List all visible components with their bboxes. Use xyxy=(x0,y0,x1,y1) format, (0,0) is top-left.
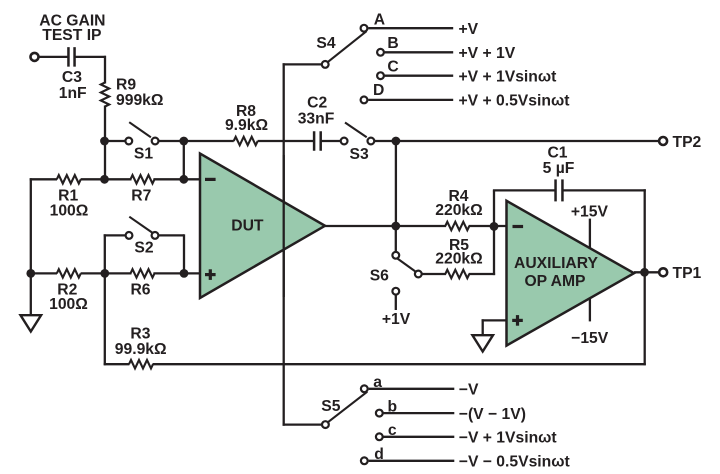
svg-text:b: b xyxy=(388,398,398,415)
op-amp DUT xyxy=(200,154,325,298)
resistor R9 xyxy=(101,83,109,107)
svg-text:c: c xyxy=(388,422,397,439)
wire tap c xyxy=(383,436,454,438)
svg-text:S5: S5 xyxy=(321,398,340,415)
svg-text:S2: S2 xyxy=(134,240,153,257)
net -V + 1Vsinwt xyxy=(459,430,558,447)
junction dot R1-R7 xyxy=(100,175,109,184)
wire tap D xyxy=(368,99,453,101)
svg-text:C1: C1 xyxy=(547,145,567,162)
resistor R5 label xyxy=(435,237,482,268)
wire vertical S1-right to DUT minus row xyxy=(183,140,185,181)
op-amp U1 auxiliary xyxy=(507,201,635,346)
wire S2 left leg xyxy=(104,234,126,274)
switch S5 xyxy=(322,392,367,428)
wire junction to R7 xyxy=(105,178,132,180)
junction dot TP2 row xyxy=(392,137,401,146)
capacitor C3 xyxy=(68,47,74,67)
resistor R9 label xyxy=(116,77,163,109)
junction dot S1 right xyxy=(179,137,188,146)
svg-text:−V: −V xyxy=(459,382,479,399)
junction dot DUT output xyxy=(391,222,400,231)
contact a xyxy=(361,374,382,392)
switch S6 label xyxy=(370,268,389,285)
resistor R4 label xyxy=(435,188,482,219)
net +V xyxy=(459,21,479,38)
net -15V xyxy=(571,330,609,347)
svg-text:+V + 1V: +V + 1V xyxy=(459,45,516,62)
wire aux plus to ground xyxy=(482,319,507,335)
switch S3 xyxy=(341,123,375,145)
svg-text:−V + 1Vsinωt: −V + 1Vsinωt xyxy=(459,430,558,447)
svg-text:B: B xyxy=(387,35,398,52)
contact D xyxy=(361,82,385,103)
net -(V - 1V) xyxy=(459,406,526,423)
svg-text:OP AMP: OP AMP xyxy=(524,273,585,290)
switch S6 xyxy=(392,252,421,277)
resistor R5 xyxy=(445,270,469,278)
svg-text:AUXILIARY: AUXILIARY xyxy=(514,255,598,272)
wire S1 row left xyxy=(105,140,126,142)
capacitor C1 xyxy=(556,179,563,201)
resistor R7 label xyxy=(131,187,151,204)
wire R5 right leg up xyxy=(469,226,495,275)
wire junction down to R3 row xyxy=(104,273,130,365)
op-amp DUT label xyxy=(231,218,264,235)
capacitor C3 label xyxy=(59,69,87,102)
wire S2 right leg xyxy=(158,234,184,274)
junction dot R7-DUT xyxy=(179,175,188,184)
svg-text:+V + 0.5Vsinωt: +V + 0.5Vsinωt xyxy=(459,93,571,110)
op-amp DUT plus sign xyxy=(205,269,216,280)
junction dot R2-R6 xyxy=(100,269,109,278)
resistor R8 xyxy=(234,137,258,145)
net +V + 1Vsinwt xyxy=(459,68,558,85)
svg-text:33nF: 33nF xyxy=(298,110,335,127)
svg-text:TEST IP: TEST IP xyxy=(42,27,101,44)
switch S2 xyxy=(126,217,159,239)
junction dot R2 left xyxy=(26,269,35,278)
svg-text:1nF: 1nF xyxy=(59,85,87,102)
ground left xyxy=(21,315,42,331)
wire S1 junction to R8 xyxy=(184,140,234,142)
wire R1 row left corner xyxy=(30,178,57,274)
capacitor C2 xyxy=(314,131,321,151)
wire S1 row right xyxy=(158,140,184,142)
svg-text:999kΩ: 999kΩ xyxy=(116,92,163,109)
wire R9 to S1 row junction xyxy=(104,106,106,181)
svg-text:S4: S4 xyxy=(316,35,335,52)
svg-text:R6: R6 xyxy=(130,282,150,299)
wire R6 to DUT plus xyxy=(153,272,200,274)
svg-text:−(V − 1V): −(V − 1V) xyxy=(459,406,526,423)
junction dot R6-DUT xyxy=(180,269,189,278)
wire tap A xyxy=(368,27,453,29)
resistor R4 xyxy=(445,222,469,230)
switch S1 xyxy=(125,122,158,144)
svg-text:R3: R3 xyxy=(130,326,150,343)
net -V - 0.5Vsinwt xyxy=(459,454,571,471)
svg-text:+1V: +1V xyxy=(382,311,411,328)
resistor R1 xyxy=(57,175,81,183)
switch S2 label xyxy=(134,240,153,257)
wire C1 left leg xyxy=(493,190,495,227)
svg-text:C: C xyxy=(387,59,398,76)
svg-text:220kΩ: 220kΩ xyxy=(435,251,482,268)
wire vertical TP2-row to output row xyxy=(395,141,397,226)
svg-text:9.9kΩ: 9.9kΩ xyxy=(225,117,268,134)
resistor R2 label xyxy=(49,282,88,313)
wire S6 to R5 xyxy=(422,273,447,275)
svg-text:S6: S6 xyxy=(370,268,389,285)
terminal +1V xyxy=(382,288,411,328)
wire DUT output to R4 xyxy=(325,225,446,227)
wire R3 row to right vertical xyxy=(153,363,646,365)
wire +1V stub xyxy=(395,295,397,310)
svg-text:+15V: +15V xyxy=(571,204,609,221)
svg-text:+V: +V xyxy=(459,21,479,38)
capacitor C1 label xyxy=(543,145,575,178)
wire S5 feed xyxy=(283,423,322,425)
svg-text:TP2: TP2 xyxy=(673,134,702,151)
wire junction to R6 xyxy=(105,272,132,274)
wire R8 to C2 xyxy=(258,140,315,142)
wire input to C3 xyxy=(39,56,69,58)
svg-text:100Ω: 100Ω xyxy=(49,296,88,313)
contact b xyxy=(376,398,397,416)
wire tap d xyxy=(369,460,455,462)
wire R2 row left xyxy=(30,272,57,274)
contact B xyxy=(377,35,399,56)
op-amp U1 plus sign xyxy=(512,315,523,326)
terminal TP2 label xyxy=(673,134,702,151)
resistor R2 xyxy=(57,269,81,277)
wire S6 hang xyxy=(395,226,397,252)
svg-text:A: A xyxy=(374,11,385,28)
terminal TP2 xyxy=(659,137,667,145)
net +V + 0.5Vsinwt xyxy=(459,93,571,110)
wire R2 to junction xyxy=(81,272,106,274)
svg-text:5 µF: 5 µF xyxy=(543,160,575,177)
resistor R6 label xyxy=(130,282,150,299)
svg-text:+V + 1Vsinωt: +V + 1Vsinωt xyxy=(459,68,558,85)
resistor R1 label xyxy=(50,187,89,219)
junction dot aux minus xyxy=(490,222,499,231)
net -V xyxy=(459,382,479,399)
wire tap a xyxy=(369,388,455,390)
capacitor C2 label xyxy=(298,95,335,128)
svg-text:99.9kΩ: 99.9kΩ xyxy=(115,341,167,358)
wire C2 to S3 xyxy=(321,140,341,142)
wire ground drop left xyxy=(30,273,32,315)
terminal AC GAIN TEST IP xyxy=(31,53,39,61)
svg-text:220kΩ: 220kΩ xyxy=(435,202,482,219)
switch S4 xyxy=(322,31,367,68)
resistor R6 xyxy=(131,269,155,277)
wire tap B xyxy=(385,51,454,53)
wire S3 to TP2 xyxy=(374,140,658,142)
svg-text:S3: S3 xyxy=(349,146,368,163)
wire C1 top right xyxy=(562,189,646,191)
wire C3 to corner and down to R9 xyxy=(75,56,107,84)
wire S4 feed xyxy=(283,63,322,425)
svg-text:TP1: TP1 xyxy=(673,265,702,282)
contact c xyxy=(376,422,397,440)
switch S5 label xyxy=(321,398,340,415)
contact d xyxy=(361,446,384,464)
svg-text:a: a xyxy=(373,374,382,391)
contact C xyxy=(377,59,399,80)
wire C1 top left xyxy=(493,189,556,191)
switch S1 label xyxy=(134,146,153,163)
svg-text:C2: C2 xyxy=(307,95,327,112)
wire S4-S5 vertical over DUT xyxy=(283,155,285,297)
wire R1 to junction xyxy=(81,178,106,180)
wire -15V stub xyxy=(589,298,591,322)
wire tap C xyxy=(385,75,454,77)
terminal TP1 label xyxy=(673,265,702,282)
resistor R8 label xyxy=(225,103,268,134)
wire aux output to TP1 xyxy=(634,271,658,273)
switch S4 label xyxy=(316,35,335,52)
contact A xyxy=(361,11,385,31)
svg-text:−V − 0.5Vsinωt: −V − 0.5Vsinωt xyxy=(459,454,571,471)
wire C1 box right vertical xyxy=(644,189,646,365)
svg-text:100Ω: 100Ω xyxy=(50,203,89,220)
op-amp U1 label xyxy=(514,255,598,290)
svg-text:DUT: DUT xyxy=(231,218,264,235)
resistor R3 label xyxy=(115,326,167,359)
svg-text:R7: R7 xyxy=(131,187,151,204)
svg-text:C3: C3 xyxy=(62,69,82,86)
junction dot S1 left xyxy=(100,137,109,146)
svg-text:D: D xyxy=(373,82,384,99)
net +15V xyxy=(571,204,609,221)
svg-text:S1: S1 xyxy=(134,146,153,163)
resistor R7 xyxy=(131,175,155,183)
wire +15V stub xyxy=(589,219,591,249)
net +V + 1V xyxy=(459,45,516,62)
switch S3 label xyxy=(349,146,368,163)
svg-text:d: d xyxy=(374,446,384,463)
ground auxiliary xyxy=(472,335,493,351)
terminal AC GAIN label xyxy=(39,13,105,45)
op-amp U1 minus sign xyxy=(513,225,524,228)
wire R4 to aux minus xyxy=(469,225,507,227)
terminal TP1 xyxy=(659,268,667,276)
op-amp DUT minus sign xyxy=(205,178,216,181)
wire R7 to junction to DUT minus xyxy=(153,178,200,180)
junction dot aux output xyxy=(640,268,649,277)
resistor R3 xyxy=(129,360,153,368)
svg-text:−15V: −15V xyxy=(571,330,609,347)
wire tap b xyxy=(383,412,454,414)
